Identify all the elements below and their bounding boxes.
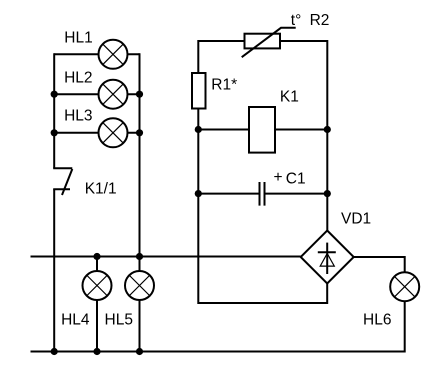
wire upper bus right segment (bridge right vertex to HL6)	[354, 257, 405, 272]
wire capacitor row left lead	[198, 193, 258, 195]
junction dot HL2 left	[51, 91, 58, 98]
svg-text:+: +	[274, 169, 283, 186]
wire capacitor row right lead	[266, 193, 328, 195]
svg-text:HL4: HL4	[61, 312, 90, 329]
junction dot HL3 right	[136, 129, 143, 136]
junction dot upper bus / HL4	[93, 253, 100, 260]
svg-text:K1: K1	[280, 89, 299, 106]
junction dot bottom bus / HL5	[136, 348, 143, 355]
junction dot capacitor row right	[324, 190, 331, 197]
wire upper bus left segment	[31, 256, 301, 258]
wire relay row	[198, 129, 327, 131]
wire HL2 branch horizontal	[54, 93, 139, 95]
wire HL5 vertical	[139, 257, 141, 352]
switch contact K1/1	[53, 168, 72, 195]
svg-text:HL2: HL2	[64, 70, 92, 87]
lamp HL3	[99, 118, 128, 147]
junction dot relay row left	[195, 126, 202, 133]
resistor R1	[192, 73, 206, 109]
lamp HL1	[99, 40, 128, 69]
wire HL3 branch horizontal	[54, 132, 139, 134]
svg-text:R2: R2	[310, 12, 330, 29]
svg-text:HL1: HL1	[64, 30, 92, 47]
junction dot relay row right	[324, 126, 331, 133]
lamp HL2	[99, 80, 128, 109]
svg-text:R1*: R1*	[211, 77, 237, 94]
wire top row (left vertical top + R2 row left lead)	[198, 41, 244, 73]
wire left vertical below R1 + bottom connector + up to bridge bottom	[198, 109, 327, 304]
relay coil K1	[249, 107, 275, 153]
svg-text:VD1: VD1	[341, 211, 371, 228]
junction dot bottom bus / left rail	[51, 348, 58, 355]
bridge rectifier VD1	[301, 231, 354, 284]
svg-text:t°: t°	[291, 12, 302, 29]
wire left rail lower vertical (switch to bottom bus)	[53, 189, 55, 351]
svg-text:C1: C1	[286, 171, 306, 188]
wire R2 right lead + right vertical down to bridge top	[280, 41, 327, 231]
wire HL1 branch horizontal	[54, 53, 139, 55]
capacitor C1	[260, 182, 265, 206]
wire HL4 vertical	[96, 257, 98, 352]
svg-text:K1/1: K1/1	[85, 181, 117, 198]
junction dot capacitor row left	[195, 190, 202, 197]
svg-text:HL3: HL3	[64, 107, 92, 124]
junction dot bottom bus / HL4	[93, 348, 100, 355]
wire right rail vertical (HL1 corner down to upper bus)	[139, 53, 141, 256]
wire bottom bus (with right corner up to HL6)	[31, 300, 405, 351]
lamp HL5	[125, 271, 154, 300]
junction dot HL2 right	[136, 91, 143, 98]
junction dot upper bus / HL5	[136, 253, 143, 260]
lamp HL6	[390, 272, 419, 301]
wire left rail upper vertical (HL1 corner down to switch)	[53, 53, 55, 168]
svg-text:HL5: HL5	[105, 312, 133, 329]
junction dot HL3 left	[51, 129, 58, 136]
lamp HL4	[83, 271, 112, 300]
thermistor R2	[242, 28, 296, 57]
svg-text:HL6: HL6	[363, 312, 391, 329]
